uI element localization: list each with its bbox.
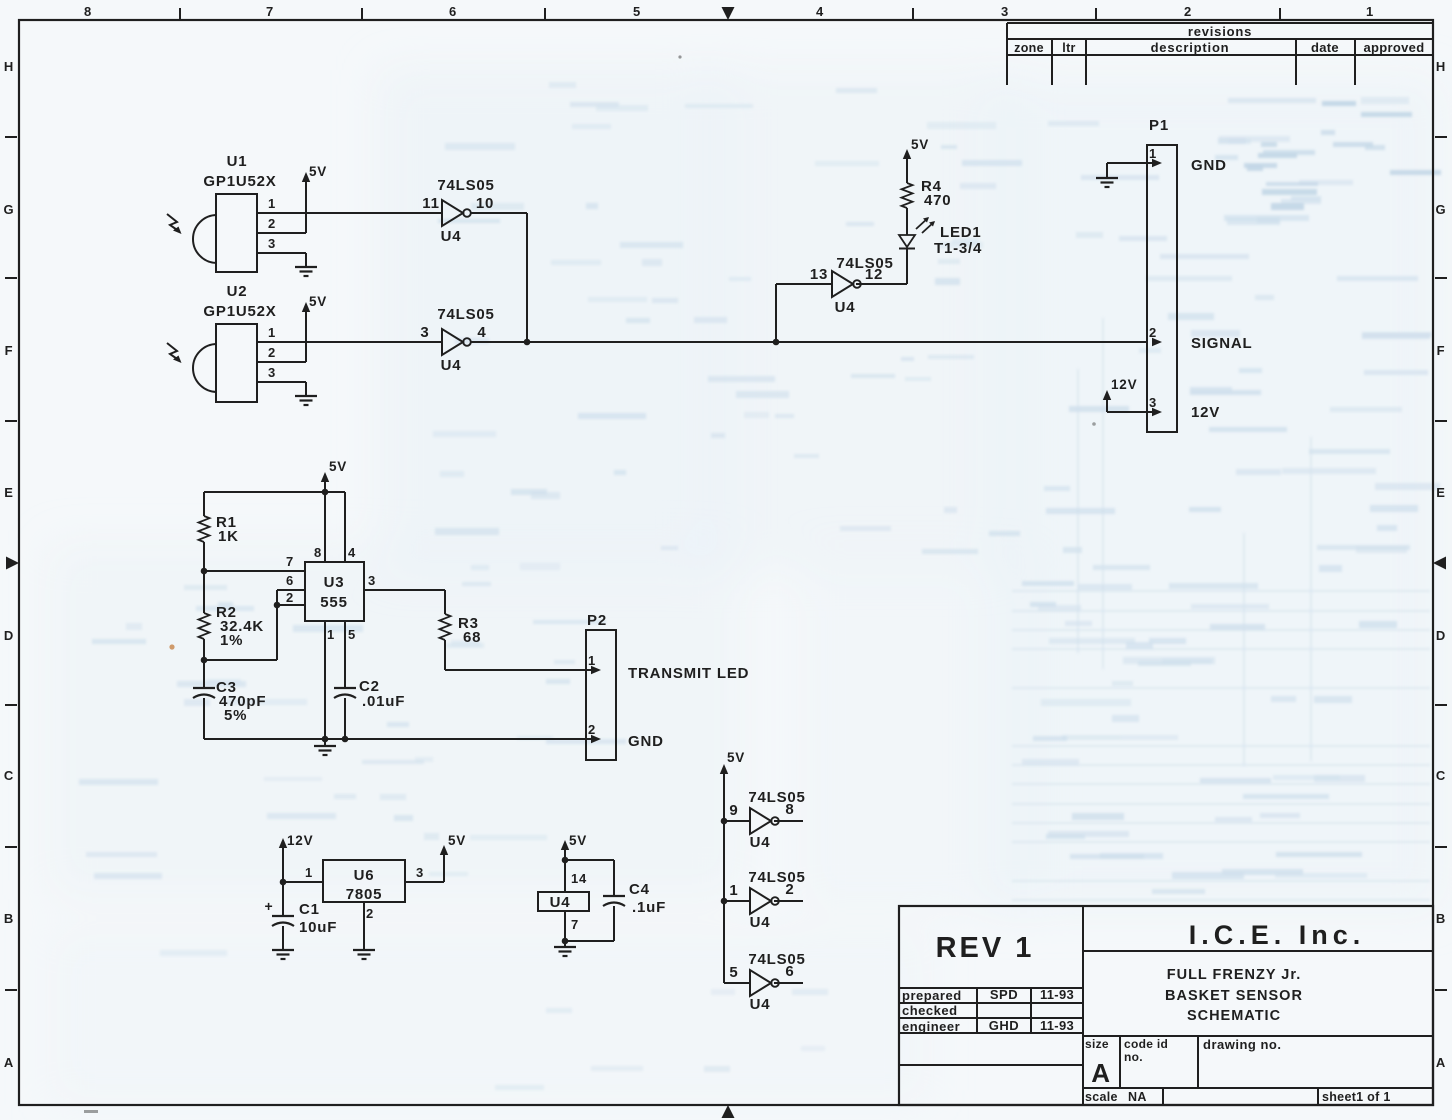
svg-text:3: 3 xyxy=(420,324,429,341)
svg-text:1: 1 xyxy=(588,653,596,668)
svg-text:12V: 12V xyxy=(287,833,313,848)
svg-text:I.C.E. Inc.: I.C.E. Inc. xyxy=(1189,920,1366,950)
svg-text:6: 6 xyxy=(785,963,794,980)
svg-text:2: 2 xyxy=(1149,325,1157,340)
svg-text:GP1U52X: GP1U52X xyxy=(203,303,276,320)
svg-text:.01uF: .01uF xyxy=(362,693,405,710)
svg-text:5: 5 xyxy=(348,627,356,642)
svg-text:U4: U4 xyxy=(550,894,571,911)
svg-text:E: E xyxy=(4,485,13,500)
svg-text:74LS05: 74LS05 xyxy=(437,177,494,194)
svg-text:prepared: prepared xyxy=(902,988,962,1003)
svg-text:U4: U4 xyxy=(441,228,462,245)
svg-text:U4: U4 xyxy=(750,996,771,1013)
svg-text:description: description xyxy=(1151,40,1230,55)
svg-text:U6: U6 xyxy=(354,867,375,884)
svg-text:C1: C1 xyxy=(299,901,320,918)
svg-text:2: 2 xyxy=(286,590,294,605)
svg-text:GP1U52X: GP1U52X xyxy=(203,173,276,190)
svg-text:11: 11 xyxy=(422,195,439,212)
svg-text:P1: P1 xyxy=(1149,117,1169,134)
svg-text:REV 1: REV 1 xyxy=(936,932,1035,964)
svg-text:engineer: engineer xyxy=(902,1019,960,1034)
svg-text:4: 4 xyxy=(348,545,356,560)
svg-text:G: G xyxy=(4,202,15,217)
svg-text:1: 1 xyxy=(729,882,738,899)
svg-text:1: 1 xyxy=(1366,4,1374,19)
svg-text:1%: 1% xyxy=(220,632,243,649)
svg-text:14: 14 xyxy=(571,871,587,886)
svg-text:LED1: LED1 xyxy=(940,224,982,241)
svg-text:.1uF: .1uF xyxy=(632,899,666,916)
svg-text:7: 7 xyxy=(286,554,294,569)
svg-text:SIGNAL: SIGNAL xyxy=(1191,335,1252,352)
svg-text:7: 7 xyxy=(266,4,274,19)
svg-text:date: date xyxy=(1311,40,1339,55)
svg-text:3: 3 xyxy=(1001,4,1009,19)
svg-text:10: 10 xyxy=(476,195,494,212)
svg-text:GND: GND xyxy=(628,733,664,750)
svg-text:1K: 1K xyxy=(218,528,239,545)
svg-text:BASKET SENSOR: BASKET SENSOR xyxy=(1165,988,1303,1004)
svg-text:U4: U4 xyxy=(835,299,856,316)
svg-text:2: 2 xyxy=(268,345,276,360)
svg-text:T1-3/4: T1-3/4 xyxy=(934,240,982,257)
svg-text:1: 1 xyxy=(268,325,276,340)
svg-text:revisions: revisions xyxy=(1188,24,1252,39)
svg-text:12: 12 xyxy=(865,266,883,283)
svg-text:3: 3 xyxy=(268,236,276,251)
svg-text:U2: U2 xyxy=(227,283,248,300)
svg-text:13: 13 xyxy=(810,266,828,283)
svg-text:74LS05: 74LS05 xyxy=(748,951,805,968)
svg-text:1: 1 xyxy=(268,196,276,211)
svg-text:6: 6 xyxy=(449,4,457,19)
svg-text:drawing no.: drawing no. xyxy=(1203,1037,1281,1052)
svg-text:U4: U4 xyxy=(750,834,771,851)
svg-text:1: 1 xyxy=(305,865,313,880)
svg-text:checked: checked xyxy=(902,1003,958,1018)
svg-text:code id: code id xyxy=(1124,1037,1168,1051)
svg-text:G: G xyxy=(1436,202,1447,217)
svg-text:A: A xyxy=(4,1055,14,1070)
svg-text:GHD: GHD xyxy=(989,1018,1019,1033)
svg-text:74LS05: 74LS05 xyxy=(437,306,494,323)
svg-text:5V: 5V xyxy=(911,137,929,152)
svg-text:3: 3 xyxy=(416,865,424,880)
svg-text:74LS05: 74LS05 xyxy=(748,789,805,806)
svg-text:3: 3 xyxy=(368,573,376,588)
svg-text:68: 68 xyxy=(463,629,481,646)
svg-text:+: + xyxy=(265,898,274,914)
svg-text:C: C xyxy=(1436,768,1446,783)
svg-text:U4: U4 xyxy=(441,357,462,374)
svg-text:11-93: 11-93 xyxy=(1040,987,1074,1002)
svg-text:F: F xyxy=(1437,343,1446,358)
svg-text:no.: no. xyxy=(1124,1050,1143,1064)
svg-text:2: 2 xyxy=(268,216,276,231)
svg-text:H: H xyxy=(1436,59,1446,74)
svg-text:5V: 5V xyxy=(309,294,327,309)
svg-text:8: 8 xyxy=(84,4,92,19)
svg-text:GND: GND xyxy=(1191,157,1227,174)
svg-text:F: F xyxy=(5,343,14,358)
svg-text:scale: scale xyxy=(1085,1090,1118,1104)
svg-text:8: 8 xyxy=(785,801,794,818)
svg-text:11-93: 11-93 xyxy=(1040,1018,1074,1033)
svg-text:5V: 5V xyxy=(727,750,745,765)
svg-text:5V: 5V xyxy=(309,164,327,179)
svg-text:SCHEMATIC: SCHEMATIC xyxy=(1187,1008,1281,1024)
svg-text:3: 3 xyxy=(1149,395,1157,410)
svg-text:zone: zone xyxy=(1014,41,1044,55)
svg-text:A: A xyxy=(1436,1055,1446,1070)
svg-text:1: 1 xyxy=(327,627,335,642)
svg-text:B: B xyxy=(4,911,14,926)
svg-text:2: 2 xyxy=(785,881,794,898)
svg-text:4: 4 xyxy=(816,4,824,19)
svg-text:5V: 5V xyxy=(569,833,587,848)
svg-text:7: 7 xyxy=(571,917,579,932)
svg-text:5: 5 xyxy=(729,964,738,981)
svg-text:D: D xyxy=(1436,628,1446,643)
svg-text:2: 2 xyxy=(588,722,596,737)
svg-text:TRANSMIT LED: TRANSMIT LED xyxy=(628,665,749,682)
svg-text:5: 5 xyxy=(633,4,641,19)
svg-text:3: 3 xyxy=(268,365,276,380)
svg-text:D: D xyxy=(4,628,14,643)
svg-text:U4: U4 xyxy=(750,914,771,931)
svg-text:P2: P2 xyxy=(587,612,607,629)
svg-text:4: 4 xyxy=(477,324,486,341)
svg-text:8: 8 xyxy=(314,545,322,560)
svg-text:U1: U1 xyxy=(227,153,248,170)
svg-text:size: size xyxy=(1085,1037,1109,1051)
svg-text:2: 2 xyxy=(1184,4,1192,19)
svg-text:U3: U3 xyxy=(324,574,345,591)
svg-text:470: 470 xyxy=(924,192,951,209)
svg-text:555: 555 xyxy=(320,594,347,611)
svg-text:5V: 5V xyxy=(329,459,347,474)
svg-text:sheet1 of 1: sheet1 of 1 xyxy=(1322,1090,1391,1104)
svg-text:1: 1 xyxy=(1149,146,1157,161)
svg-text:E: E xyxy=(1436,485,1445,500)
svg-text:12V: 12V xyxy=(1111,377,1137,392)
svg-text:FULL FRENZY Jr.: FULL FRENZY Jr. xyxy=(1167,967,1302,983)
svg-text:5V: 5V xyxy=(448,833,466,848)
svg-text:H: H xyxy=(4,59,14,74)
svg-text:NA: NA xyxy=(1128,1090,1147,1104)
svg-text:10uF: 10uF xyxy=(299,919,337,936)
svg-text:ltr: ltr xyxy=(1062,41,1075,55)
svg-text:C: C xyxy=(4,768,14,783)
svg-text:B: B xyxy=(1436,911,1446,926)
svg-text:9: 9 xyxy=(729,802,738,819)
svg-text:approved: approved xyxy=(1364,40,1425,55)
svg-text:5%: 5% xyxy=(224,707,247,724)
svg-text:SPD: SPD xyxy=(990,987,1018,1002)
svg-text:A: A xyxy=(1091,1058,1111,1088)
svg-text:12V: 12V xyxy=(1191,404,1220,421)
svg-text:2: 2 xyxy=(366,906,374,921)
svg-text:C4: C4 xyxy=(629,881,650,898)
svg-text:6: 6 xyxy=(286,573,294,588)
svg-text:74LS05: 74LS05 xyxy=(748,869,805,886)
svg-text:7805: 7805 xyxy=(346,886,383,903)
